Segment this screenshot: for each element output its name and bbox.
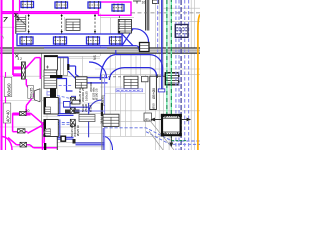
dark edge bottom corridor (56, 137, 58, 150)
dashed route bottom right (105, 128, 201, 145)
damper dark mark (67, 64, 69, 70)
black wall chunk (50, 75, 62, 78)
small grid shelf (79, 115, 95, 122)
svg-text:38 M: 38 M (100, 117, 104, 124)
magenta room box top (99, 2, 132, 15)
lavender duct thin (116, 89, 143, 92)
cross tick (15, 54, 18, 57)
stair 4 mid-right (124, 76, 138, 88)
svg-text:50x35: 50x35 (29, 88, 33, 98)
dark boxes bottom corridor (65, 110, 71, 114)
louver grid box mid (76, 77, 88, 88)
text cluster labels mid (78, 87, 99, 112)
pipe green B (170, 0, 172, 116)
step dark box on duct (73, 139, 76, 144)
dashed centerline corridor double (43, 123, 70, 125)
pipes lavender dashed (158, 0, 189, 150)
junction box (140, 43, 150, 52)
riser hatch tall box (22, 62, 26, 79)
left riser duct stepped pipe (57, 57, 108, 83)
stair 5 bottom-mid (103, 114, 119, 126)
blue tag right (158, 89, 165, 92)
svg-text:Ø5+Ø8: Ø5+Ø8 (152, 88, 156, 99)
pipe green A (166, 0, 168, 116)
pipe purple thick (161, 0, 163, 89)
tall label box right (150, 76, 157, 109)
stair 3 (118, 20, 131, 34)
svg-text:160x35: 160x35 (84, 91, 88, 101)
riser hatch boxes (18, 97, 76, 147)
stairs top-left (16, 13, 26, 34)
svg-text:4=: 4= (145, 118, 149, 122)
fixture under band (142, 76, 149, 82)
label 40x40 (3, 103, 11, 123)
gray diagonals bottom right (149, 120, 174, 151)
black wall chunk2 (50, 88, 56, 98)
lavender corridor line (75, 110, 105, 112)
dashed centerline corridor upper (53, 95, 72, 99)
gray vertical mid (101, 75, 103, 150)
top small box (153, 0, 159, 4)
magenta bottom-left duct network (2, 79, 58, 150)
svg-text:Ø50: Ø50 (152, 103, 156, 109)
dark box small (72, 100, 80, 104)
dark chunk vertical (101, 103, 103, 116)
equipment dashed box top-right (175, 25, 188, 38)
small label box left of fan (144, 113, 152, 121)
stair grid mid-top (66, 19, 80, 30)
blue vertical stair edge (102, 128, 104, 150)
diffuser row2 (20, 36, 122, 45)
magenta duct upper-left zigzag (13, 58, 40, 79)
dashed drop lines with arrows (29, 14, 120, 34)
svg-text:4 2: 4 2 (18, 57, 23, 61)
lavender dashed centerline (54, 85, 72, 87)
grid gray lines (0, 0, 200, 150)
diffuser row1 (21, 1, 124, 13)
corridor ducts bottom (58, 114, 113, 150)
damper boxes on bottom duct (61, 136, 66, 141)
wall magenta top band (2, 11, 99, 13)
small arc corner top-left (1, 34, 4, 39)
black wall edge (55, 55, 57, 78)
black stub bottom (44, 143, 46, 150)
wall magenta top short (19, 0, 21, 12)
top label bracket (133, 1, 141, 4)
wall magenta left lower (5, 72, 7, 150)
duct transition piece (122, 29, 136, 46)
svg-text:10: 10 (142, 0, 146, 4)
svg-text:30: 30 (25, 108, 30, 113)
svg-text:60x60: 60x60 (7, 83, 12, 96)
orange pipe (198, 15, 200, 151)
svg-text:(50x35): (50x35) (101, 95, 105, 106)
dark tee line (157, 75, 165, 77)
blue tag small 1 (47, 92, 53, 95)
supply duct band horizontal (17, 34, 122, 46)
green dashed horizontal (172, 140, 187, 142)
svg-text:Ø125 till: Ø125 till (76, 125, 80, 136)
pipe navy dashed (180, 0, 182, 150)
wall magenta left inner (12, 0, 14, 75)
center axis dashed (131, 12, 200, 14)
fan unit box (161, 114, 182, 137)
blue verticals kitchen (60, 98, 102, 138)
flag arrow top-left (4, 17, 8, 21)
label 50x35 (28, 86, 34, 99)
blue tag small 2 (72, 96, 76, 100)
lavender long vertical mid (104, 75, 106, 150)
main horizontal duct right (100, 55, 162, 80)
svg-text:NS: NS (93, 55, 97, 60)
svg-text:Ø100 25: Ø100 25 (95, 88, 99, 100)
riser pipe bundle (146, 0, 149, 31)
blue stub at elbow (115, 50, 117, 55)
blue wall line over band (44, 47, 107, 49)
wall magenta left outer (1, 0, 3, 150)
duct elbow down to junction (135, 29, 149, 50)
label 60x60 (4, 78, 12, 97)
cross mark (14, 13, 18, 17)
fan arrows (152, 118, 191, 146)
green stub below fan (170, 136, 172, 141)
louver box right (165, 73, 179, 85)
svg-text:40+40: 40+40 (6, 110, 11, 122)
text cluster 2 (70, 122, 80, 137)
wall band section (dark double line across) (0, 48, 200, 53)
blue box small (64, 102, 71, 108)
stepped pipe 2 (57, 79, 73, 92)
door wedge (34, 89, 40, 102)
cabinet box under band (57, 58, 68, 76)
kitchen unit boxes bottom (44, 98, 59, 137)
stair treads left-mid (44, 70, 57, 88)
svg-text:WD/RD: WD/RD (89, 81, 93, 92)
kitchen fixture box upper (44, 56, 57, 71)
door arc gray (42, 128, 50, 139)
svg-text:Ø125: Ø125 (89, 104, 93, 112)
